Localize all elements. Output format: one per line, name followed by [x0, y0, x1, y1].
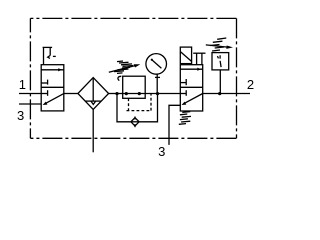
valve V1 top box flow arrow: [41, 69, 64, 71]
svg-text:3: 3: [17, 108, 24, 123]
wire through regulator: [123, 93, 146, 95]
valve V2 solenoid: [180, 47, 191, 64]
gauge stem: [156, 74, 158, 93]
regulator spring hook: [118, 76, 121, 80]
wire port 2 output: [203, 93, 250, 95]
regulator adjust arrow: [109, 66, 136, 73]
valve V2 port3 vent line: [169, 105, 180, 145]
valve V2 bottom box exhaust arrow 2-3: [184, 94, 203, 104]
svg-text:2: 2: [247, 77, 254, 92]
valve V2 top box blocked port: [180, 82, 186, 84]
valve V1 manual actuator with detent: [43, 46, 53, 48]
valve V2 return spring: [179, 112, 191, 125]
svg-text:1: 1: [19, 77, 26, 92]
junction dots: [115, 92, 118, 95]
svg-text:3: 3: [158, 144, 165, 159]
wire port3 to valve V1: [19, 103, 41, 105]
regulator R1 box: [123, 76, 146, 98]
filter drain line: [92, 109, 94, 152]
throttle spring (adjustable): [210, 38, 226, 51]
regulator relief loop: [117, 94, 131, 122]
wire port1 to valve V1: [19, 93, 41, 95]
filter element line: [92, 78, 94, 102]
filter separator baffle: [85, 100, 101, 102]
valve V2 body boxes: [180, 65, 202, 111]
valve V2 bottom box blocked port 1: [180, 93, 186, 95]
throttle adjust arrow: [206, 45, 228, 47]
regulator spring (adjustable): [114, 61, 133, 73]
wire filter to regulator: [109, 93, 123, 95]
valve V1 top box blocked port: [41, 82, 47, 84]
valve V1 bottom box exhaust arrow 2-3: [45, 94, 64, 104]
regulator pilot line (dashed): [127, 94, 152, 111]
throttle box (soft-start restrictor): [212, 53, 229, 70]
valve V2 pilot cap: [193, 52, 205, 54]
relief valve diamond: [131, 118, 139, 126]
wire V1 to filter: [64, 93, 78, 95]
valve V2 top box flow arrow: [180, 68, 202, 70]
filter F1 diamond: [78, 78, 109, 110]
valve V1 body boxes: [41, 65, 64, 111]
valve V1 bottom box blocked port 1: [41, 93, 47, 95]
throttle stem: [219, 70, 221, 94]
enclosure border (dash-dot): [30, 18, 236, 138]
pressure gauge G1: [146, 54, 167, 75]
wire regulator to valve V2: [145, 93, 180, 95]
